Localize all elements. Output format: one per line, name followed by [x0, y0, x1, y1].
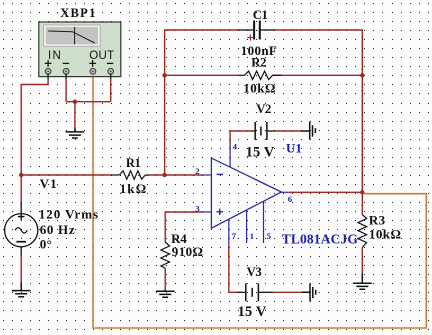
ground under R4	[156, 289, 175, 297]
op-amp minus input sign	[217, 173, 224, 175]
pin 2 lead	[202, 174, 212, 176]
wire pin3 to R4	[165, 212, 201, 242]
ground right of V2	[301, 122, 315, 140]
wire XBP1 OUT- down	[110, 79, 112, 102]
svg-text:C1: C1	[253, 8, 268, 22]
junction output node	[360, 190, 364, 194]
wire V1 bottom to ground	[20, 256, 22, 283]
svg-text:V2: V2	[256, 102, 271, 116]
svg-text:2: 2	[195, 166, 200, 176]
resistor R3	[358, 215, 367, 248]
capacitor C1	[238, 21, 276, 40]
svg-text:4: 4	[233, 142, 238, 152]
svg-text:15 V: 15 V	[238, 304, 267, 320]
junction R2 left	[162, 73, 166, 77]
resistor R1	[111, 171, 151, 179]
svg-text:R3: R3	[369, 212, 386, 227]
mark OUT plus	[89, 60, 96, 67]
ground under R3	[353, 273, 372, 289]
svg-text:7: 7	[232, 231, 237, 241]
wire ground stem	[74, 102, 76, 128]
pin 6 lead	[281, 191, 288, 193]
svg-text:60 Hz: 60 Hz	[40, 222, 76, 237]
wire pin4 to V2	[230, 131, 250, 147]
wire R4 bottom to ground	[164, 268, 166, 289]
mark IN minus	[63, 62, 69, 64]
wire node V1 to R1	[21, 174, 111, 176]
resistor R4	[161, 242, 170, 268]
stub OUT-	[110, 74, 112, 80]
ground under XBP1	[66, 127, 85, 138]
svg-text:5: 5	[267, 231, 272, 241]
svg-text:V1: V1	[40, 176, 58, 191]
ground right of V3	[302, 283, 316, 301]
svg-text:IN: IN	[48, 50, 62, 62]
junction node V1	[19, 173, 23, 177]
svg-text:1kΩ: 1kΩ	[120, 181, 148, 196]
junction inverting input	[162, 173, 166, 177]
XBP1 screen frame	[44, 25, 100, 46]
wire V3 to ground	[273, 291, 302, 293]
wire R2 left	[165, 74, 239, 76]
svg-text:15 V: 15 V	[246, 145, 275, 161]
instrument XBP1 body	[39, 22, 121, 77]
ground under V1	[12, 283, 31, 297]
stub IN-	[65, 74, 67, 80]
wire R2 right	[273, 74, 363, 76]
op-amp plus input sign	[217, 209, 224, 215]
battery V2	[250, 122, 275, 140]
XBP1 screen	[46, 27, 98, 45]
battery V3	[237, 283, 273, 301]
C1 polarity plus	[247, 34, 253, 40]
junction R2 right	[360, 73, 364, 77]
terminal IN+	[45, 68, 51, 74]
pin 5 lead	[263, 201, 265, 243]
pin 1 lead	[246, 210, 248, 243]
mark OUT minus	[107, 62, 113, 64]
source V1	[5, 201, 38, 255]
wire node to R3	[361, 192, 363, 214]
wire XBP1 IN+ to node V1	[21, 79, 48, 201]
svg-text:10kΩ: 10kΩ	[369, 227, 401, 242]
svg-text:R1: R1	[126, 156, 141, 170]
terminal OUT+	[90, 68, 96, 74]
terminal OUT-	[108, 68, 114, 74]
XBP1 bode curve	[48, 31, 94, 43]
svg-text:R2: R2	[251, 56, 266, 70]
wire pin7 to V3	[229, 245, 237, 292]
svg-text:3: 3	[195, 203, 200, 213]
mark IN plus	[45, 60, 52, 67]
svg-text:TL081ACJG: TL081ACJG	[282, 232, 359, 247]
wire Bode OUT+ orange loop to op-amp output	[93, 73, 426, 328]
svg-text:V3: V3	[247, 265, 262, 279]
svg-text:XBP1: XBP1	[60, 6, 96, 20]
wire IN- to OUT- ground link	[66, 101, 111, 103]
XBP1 cursor	[74, 27, 76, 45]
junction ground link	[73, 100, 77, 104]
wire V2 to ground	[275, 130, 301, 132]
svg-text:910Ω: 910Ω	[172, 244, 204, 259]
svg-text:10kΩ: 10kΩ	[243, 80, 276, 95]
pin 7 lead	[228, 219, 230, 245]
pin 3 lead	[202, 211, 212, 213]
svg-text:0°: 0°	[40, 237, 52, 252]
op-amp U1 triangle	[211, 158, 281, 228]
terminal IN-	[63, 68, 69, 74]
wire op-amp output to node	[289, 191, 363, 193]
stub IN+	[47, 74, 49, 80]
svg-text:1: 1	[250, 231, 254, 241]
resistor R2	[238, 71, 281, 79]
wire R3 to ground	[361, 247, 363, 273]
svg-text:120 Vrms: 120 Vrms	[39, 207, 99, 222]
wire C1 top right and right vertical	[275, 30, 362, 192]
svg-text:U1: U1	[286, 140, 302, 155]
wire R1 to op-amp pin2	[151, 174, 201, 176]
pin 4 lead	[229, 146, 231, 167]
wire feedback left vertical and C1 top left	[165, 30, 238, 175]
wire XBP1 IN- down	[65, 79, 67, 102]
svg-text:6: 6	[288, 194, 293, 204]
